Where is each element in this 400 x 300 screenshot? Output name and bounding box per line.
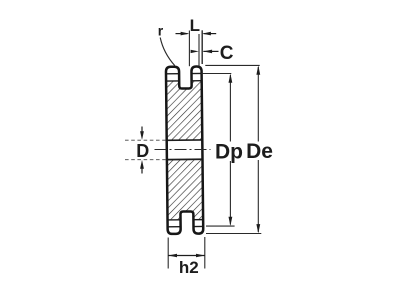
sprocket outline xyxy=(166,66,203,234)
bore top edge xyxy=(167,139,203,141)
h2 right extension line xyxy=(204,237,206,269)
svg-text:D: D xyxy=(136,141,149,161)
De bottom extension line xyxy=(206,233,261,235)
root line bottom teeth xyxy=(168,219,204,221)
De top extension line xyxy=(205,64,259,66)
dimension L right arrow xyxy=(204,33,217,35)
bore bottom edge xyxy=(167,158,203,160)
svg-text:De: De xyxy=(246,140,273,163)
Dp bottom extension line xyxy=(206,225,235,227)
D bottom dashed extension xyxy=(125,159,167,161)
h2 left extension line xyxy=(167,238,169,269)
extension line x=199 xyxy=(198,34,200,66)
Dp top extension line xyxy=(201,73,231,75)
extension line x=189.4 xyxy=(188,31,190,67)
h2 dimension line xyxy=(168,255,205,257)
dimension C right arrow xyxy=(203,50,218,52)
svg-text:r: r xyxy=(158,23,164,39)
pitch line top teeth xyxy=(166,72,202,74)
svg-text:h2: h2 xyxy=(179,258,199,277)
Dp dimension vertical line xyxy=(229,75,231,142)
pitch line bottom teeth xyxy=(168,225,204,227)
dimension L left arrow xyxy=(176,33,188,35)
svg-text:L: L xyxy=(190,16,200,35)
r leader line xyxy=(160,38,175,66)
dimension C left arrow xyxy=(191,50,199,53)
D top dashed extension xyxy=(125,139,167,141)
De dimension vertical line xyxy=(257,67,259,142)
root line top teeth xyxy=(166,80,202,82)
dimension D top arrow xyxy=(141,127,143,132)
dimension D bottom arrow xyxy=(141,169,143,174)
svg-text:C: C xyxy=(220,43,234,64)
bore band (hole) xyxy=(165,140,203,159)
extension line x=202.2 xyxy=(201,30,203,64)
svg-text:Dp: Dp xyxy=(215,141,243,164)
sprocket cross-section group (slight scan skew) xyxy=(164,66,205,234)
hatched body xyxy=(164,81,204,220)
horizontal centerline (dash-dot) xyxy=(155,149,211,151)
